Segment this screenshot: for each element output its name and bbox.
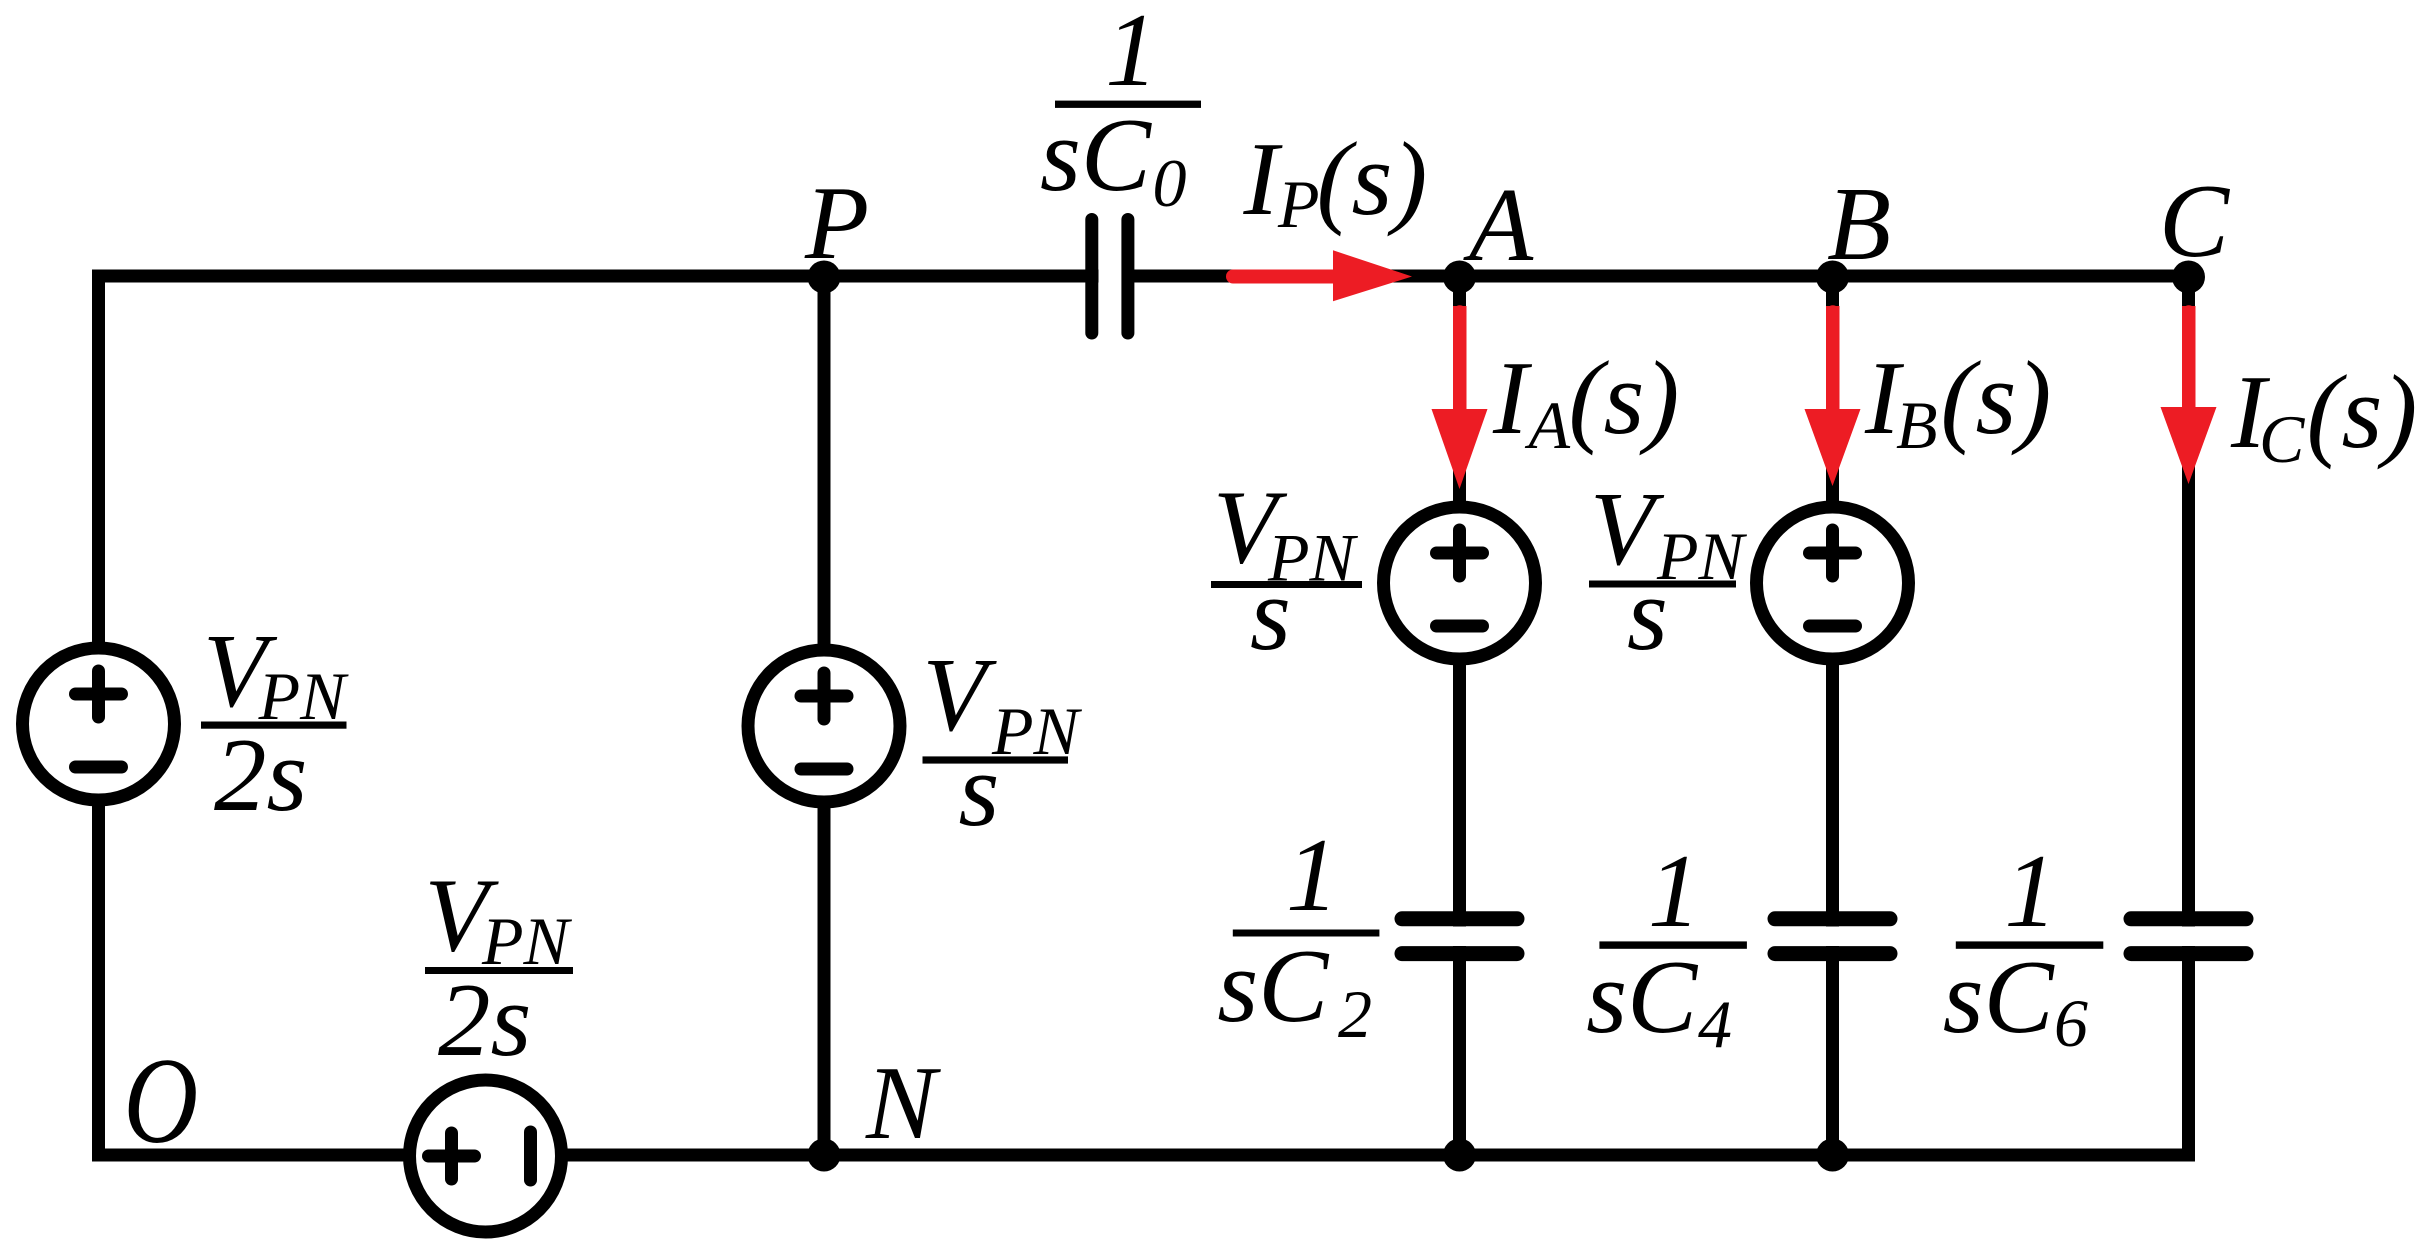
svg-text:sC: sC (1040, 96, 1153, 213)
svg-text:P: P (1277, 166, 1320, 242)
svg-text:N: N (865, 1044, 941, 1161)
svg-text:s: s (959, 731, 1000, 848)
svg-text:B: B (1827, 165, 1891, 282)
svg-text:s: s (1627, 555, 1668, 672)
svg-text:B: B (1896, 387, 1938, 463)
svg-text:s: s (1250, 555, 1291, 672)
svg-text:O: O (124, 1033, 199, 1169)
svg-text:0: 0 (1153, 145, 1187, 221)
svg-text:(s): (s) (1569, 339, 1680, 456)
svg-text:I: I (1492, 339, 1533, 456)
svg-text:sC: sC (1217, 927, 1330, 1044)
svg-text:1: 1 (2004, 832, 2056, 949)
svg-text:C: C (2159, 162, 2231, 279)
svg-text:4: 4 (1698, 986, 1732, 1062)
svg-text:1: 1 (1105, 0, 1158, 108)
svg-text:(s): (s) (1941, 339, 2052, 456)
svg-text:C: C (2259, 401, 2305, 477)
svg-text:A: A (1463, 166, 1534, 283)
svg-text:sC: sC (1943, 938, 2056, 1055)
svg-text:1: 1 (1286, 816, 1339, 933)
svg-text:1: 1 (1648, 832, 1701, 949)
svg-text:(s): (s) (1317, 120, 1428, 237)
svg-text:A: A (1525, 387, 1571, 463)
svg-text:sC: sC (1586, 938, 1699, 1055)
svg-text:2: 2 (1338, 976, 1372, 1052)
svg-text:2s: 2s (214, 716, 307, 833)
svg-text:6: 6 (2054, 985, 2088, 1061)
svg-text:P: P (804, 164, 869, 281)
svg-text:2s: 2s (438, 961, 531, 1078)
svg-text:(s): (s) (2307, 353, 2418, 470)
